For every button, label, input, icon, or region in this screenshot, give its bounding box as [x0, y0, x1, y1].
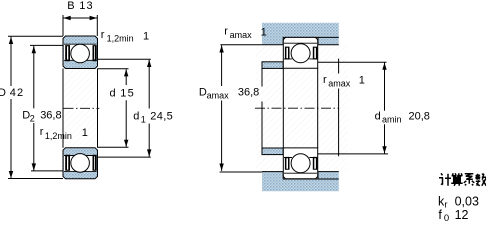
- calculation factors CJK title: [439, 173, 486, 186]
- svg-text:1: 1: [141, 114, 146, 124]
- silhouette lines between halves: [262, 68, 318, 148]
- Da max dimension: [220, 45, 262, 172]
- svg-text:36,8: 36,8: [40, 109, 61, 121]
- svg-text:12: 12: [455, 208, 469, 222]
- svg-text:0,03: 0,03: [455, 194, 479, 208]
- da min dimension: [318, 62, 388, 154]
- housing top: [262, 23, 339, 45]
- svg-text:amax: amax: [328, 78, 351, 88]
- shaft shoulder top: [262, 62, 283, 69]
- shaft hatch region: [256, 45, 348, 172]
- bore silhouette lines: [63, 69, 98, 148]
- svg-text:1,2min: 1,2min: [107, 33, 134, 43]
- d dimension: [98, 69, 129, 148]
- svg-text:d: d: [375, 111, 381, 123]
- top section cavity: [64, 44, 97, 60]
- svg-text:2: 2: [30, 113, 35, 123]
- centerline: [255, 107, 339, 109]
- svg-text:amin: amin: [382, 114, 402, 124]
- svg-text:B: B: [67, 0, 74, 12]
- svg-text:r: r: [101, 29, 105, 41]
- bottom section right seal: [93, 155, 97, 171]
- D dimension: [8, 36, 63, 178]
- svg-text:36,8: 36,8: [238, 86, 259, 98]
- housing bottom: [262, 172, 339, 192]
- ra max leader line: [338, 59, 340, 157]
- bottom section ball: [71, 154, 90, 173]
- svg-text:42: 42: [10, 87, 25, 99]
- svg-text:amax: amax: [230, 30, 253, 40]
- svg-text:r: r: [224, 25, 228, 37]
- bottom section left seal: [65, 155, 70, 171]
- top section ball: [71, 44, 90, 63]
- shaft shoulder bottom: [262, 148, 283, 155]
- svg-text:d: d: [110, 87, 116, 99]
- glyph suan (算): [451, 173, 463, 186]
- bearing top section body: [63, 36, 98, 69]
- centerline: [64, 107, 100, 109]
- bore hatch region: [63, 69, 98, 148]
- B dimension: [63, 15, 97, 36]
- svg-text:r: r: [444, 200, 447, 211]
- svg-text:D: D: [0, 87, 6, 99]
- svg-text:f: f: [438, 208, 442, 222]
- svg-text:amax: amax: [207, 91, 230, 101]
- top section right seal: [93, 45, 97, 61]
- D2 dimension: [30, 45, 63, 170]
- bottom section cavity: [64, 156, 97, 172]
- svg-text:13: 13: [79, 0, 94, 12]
- d1 dimension: [98, 59, 151, 157]
- svg-text:1: 1: [261, 27, 267, 39]
- svg-text:24,5: 24,5: [150, 110, 173, 122]
- svg-text:1,2min: 1,2min: [45, 131, 72, 141]
- svg-text:d: d: [133, 110, 139, 122]
- svg-text:1: 1: [359, 75, 365, 87]
- top section left seal: [65, 45, 70, 61]
- glyph ji (计): [439, 173, 451, 186]
- svg-text:1: 1: [82, 127, 88, 139]
- svg-text:1: 1: [143, 31, 149, 43]
- svg-text:20,8: 20,8: [409, 111, 430, 123]
- svg-text:0: 0: [444, 213, 449, 223]
- glyph shu (数): [475, 174, 486, 186]
- bearing top section (outline): [283, 37, 317, 68]
- svg-text:15: 15: [120, 87, 135, 99]
- bearing bottom section (outline): [283, 148, 317, 179]
- bearing bottom section body: [63, 148, 98, 179]
- svg-text:r: r: [40, 126, 44, 138]
- glyph xi (系): [464, 174, 475, 186]
- svg-text:r: r: [323, 74, 327, 86]
